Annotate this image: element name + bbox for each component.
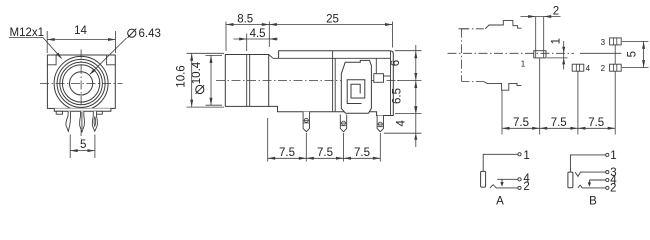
side view: switch housing block xyxy=(341,60,371,113)
pad 2 label xyxy=(601,64,606,73)
schematic B: ring contact V and wire to terminal 3 xyxy=(575,172,606,176)
hole diameter label 6.43 with leader xyxy=(89,28,160,75)
schematic B: terminal 1 xyxy=(606,150,617,162)
schematic B: terminal 4 xyxy=(606,175,618,187)
side view pin extension lines xyxy=(268,118,381,162)
side view: main housing body xyxy=(269,51,394,116)
svg-text:6.5: 6.5 xyxy=(392,88,404,104)
svg-text:2: 2 xyxy=(601,64,606,73)
dimension 2 (pad slot width) xyxy=(521,5,561,18)
schematic A: terminal 2 xyxy=(518,181,530,193)
schematic B: terminal 2 xyxy=(606,182,617,194)
thread label M12x1 with leader xyxy=(9,27,62,59)
svg-text:8.5: 8.5 xyxy=(237,14,253,26)
side view: pin 1 xyxy=(303,112,309,132)
side view: threaded barrel xyxy=(225,55,268,107)
svg-text:5: 5 xyxy=(627,51,639,57)
side view: tip contact block xyxy=(374,59,391,83)
schematic B: terminal 3 xyxy=(606,167,617,179)
label A xyxy=(496,195,504,207)
bottom view: bottom body contour with mounting tab xyxy=(461,81,521,90)
front view: right solder pin with eyelet hole xyxy=(92,111,97,131)
schematic A: terminal 1 xyxy=(518,150,530,162)
schematic B: tip contact chevron and wire to terminal 2 xyxy=(578,185,606,188)
schematic A: jack sleeve element xyxy=(481,171,486,187)
label B xyxy=(589,195,597,207)
schematic A: wire to terminal 1 xyxy=(483,154,518,171)
bottom view: vertical center line xyxy=(459,29,469,82)
svg-text:6.43: 6.43 xyxy=(139,28,161,40)
svg-text:3: 3 xyxy=(601,38,606,47)
svg-text:25: 25 xyxy=(326,14,339,26)
svg-text:7.5: 7.5 xyxy=(317,147,333,159)
front view: concentric barrel rings and hole circle xyxy=(54,56,108,110)
front view: center lines (crosshair) xyxy=(40,50,123,140)
side view: pin 4 xyxy=(340,115,346,132)
dimension 10.6 (body height) xyxy=(176,53,225,107)
svg-text:1: 1 xyxy=(521,59,526,68)
bottom view: top body contour xyxy=(461,21,521,29)
bottom view: pad 1 (slotted) xyxy=(534,17,546,58)
svg-text:7.5: 7.5 xyxy=(354,147,370,159)
svg-text:4: 4 xyxy=(586,64,591,73)
schematic A: switch arm from terminal 4 with actuation arrow xyxy=(497,179,518,186)
front view: square flange body xyxy=(47,55,115,108)
side view: switch contact (spiral) xyxy=(347,80,365,104)
svg-text:B: B xyxy=(589,195,597,207)
dimension 5 (front pin spacing) xyxy=(70,135,95,159)
svg-text:1: 1 xyxy=(551,38,563,44)
front view: left solder pin xyxy=(66,111,71,131)
dimension 5 (pad 3 to pad 2) xyxy=(622,41,649,67)
dimension 25 (body length) xyxy=(269,14,392,48)
schematic A: tip contact chevron and wire to terminal 2 xyxy=(490,185,518,188)
front view: mounting feet xyxy=(56,111,102,114)
svg-text:7.5: 7.5 xyxy=(588,117,604,129)
dimension 4 (pin length) xyxy=(384,107,422,140)
dimension 6.5 (axis to bottom) xyxy=(392,81,422,114)
pad 4 label xyxy=(586,64,591,73)
schematic B: switch arm from terminal 4 with actuation arrow xyxy=(588,180,606,187)
bottom view: pad 4 xyxy=(572,64,584,71)
svg-text:7.5: 7.5 xyxy=(551,117,567,129)
pad 3 label xyxy=(601,38,606,47)
svg-text:7.5: 7.5 xyxy=(513,117,529,129)
svg-text:2: 2 xyxy=(610,182,616,194)
dimension 4.5 (thread length) xyxy=(234,28,279,51)
svg-text:4.5: 4.5 xyxy=(250,28,266,40)
svg-text:2: 2 xyxy=(553,5,559,17)
svg-text:6: 6 xyxy=(390,60,402,66)
schematic A: terminal 4 xyxy=(518,173,530,185)
svg-text:5: 5 xyxy=(80,139,86,151)
svg-text:10.4: 10.4 xyxy=(191,61,203,84)
dimension 7.5 7.5 7.5 (pad pitch) xyxy=(502,117,615,130)
dimension 8.5 (barrel length) xyxy=(226,14,269,51)
svg-text:7.5: 7.5 xyxy=(279,147,295,159)
svg-text:A: A xyxy=(496,195,504,207)
svg-text:10.6: 10.6 xyxy=(176,65,188,87)
front view: bottom plate xyxy=(54,108,111,111)
bottom view: pad 2 xyxy=(610,64,622,71)
pad 1 label xyxy=(521,59,526,68)
svg-text:4: 4 xyxy=(523,173,530,185)
bottom view: horizontal center line xyxy=(448,52,622,54)
dimension 7.5 7.5 7.5 (side pin pitch) xyxy=(268,147,381,160)
dimension 14 (flange width) xyxy=(47,25,115,53)
dimension diameter 10.4 (barrel) xyxy=(191,55,222,105)
svg-text:14: 14 xyxy=(74,25,87,37)
dimension 6 (axis to top) xyxy=(390,45,422,147)
svg-text:1: 1 xyxy=(610,150,616,162)
bottom view: pad 3 xyxy=(610,38,622,45)
svg-text:1: 1 xyxy=(523,150,529,162)
svg-text:4: 4 xyxy=(395,120,407,127)
schematic B: wire to terminal 1 xyxy=(570,155,605,172)
schematic B: jack sleeve element xyxy=(568,172,573,188)
bottom view: pad 3 to pad 2 link line xyxy=(614,45,616,64)
front view: middle solder pin xyxy=(80,111,85,132)
side view: axis center line xyxy=(216,80,399,82)
side view: pin 2 xyxy=(377,116,383,132)
dimension 1 (pad offset) xyxy=(547,38,568,70)
bottom view pad extension lines xyxy=(502,58,615,135)
